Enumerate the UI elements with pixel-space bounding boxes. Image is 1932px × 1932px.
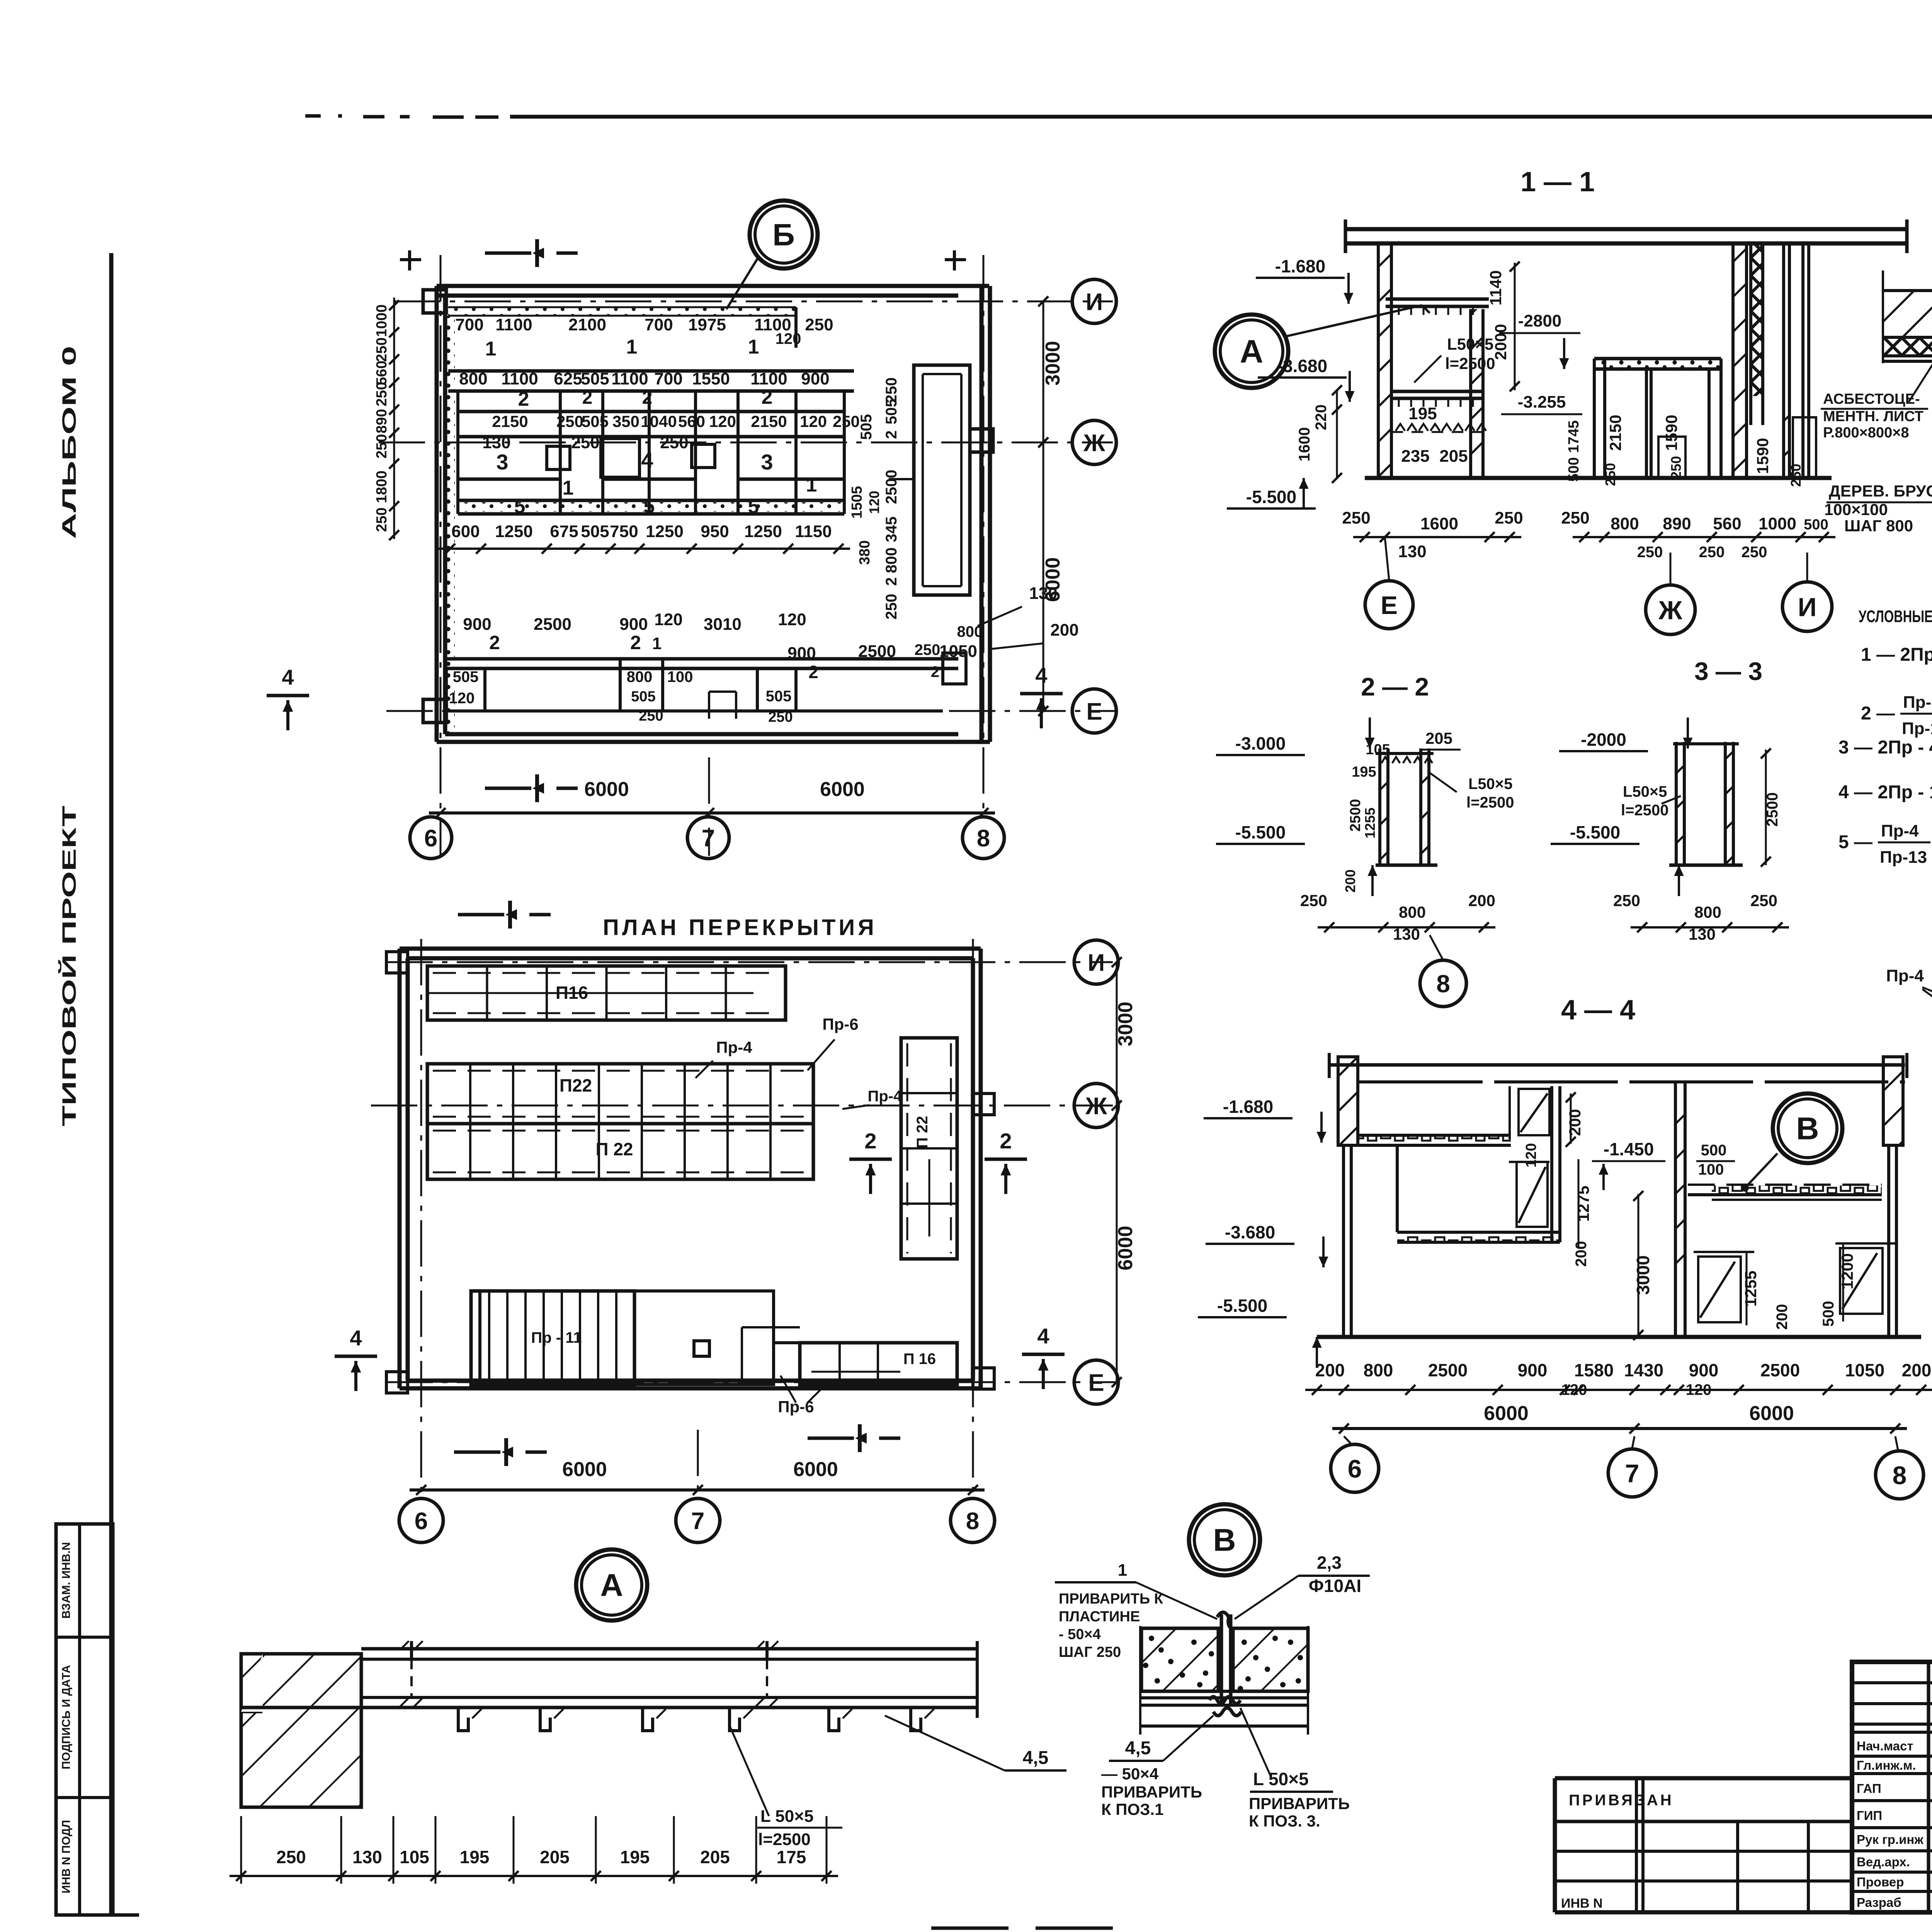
svg-text:-3.000: -3.000: [1235, 733, 1286, 753]
svg-text:250: 250: [1788, 464, 1804, 487]
svg-text:250: 250: [374, 382, 390, 406]
svg-text:2100: 2100: [568, 315, 606, 334]
svg-text:Пр-4: Пр-4: [1881, 821, 1919, 840]
svg-text:1580: 1580: [1574, 1360, 1614, 1380]
svg-text:205: 205: [1439, 447, 1468, 466]
bottom edge dashes: [23, 1928, 1839, 1932]
svg-text:2: 2: [518, 388, 529, 410]
svg-text:- 50×4: - 50×4: [1059, 1626, 1101, 1643]
svg-text:АСБЕСТОЦЕ-: АСБЕСТОЦЕ-: [1823, 391, 1920, 407]
svg-text:130: 130: [482, 433, 510, 452]
svg-text:675: 675: [550, 522, 578, 541]
svg-text:195: 195: [620, 1847, 650, 1867]
svg-text:6000: 6000: [562, 1458, 607, 1481]
svg-text:700: 700: [645, 315, 673, 334]
svg-text:П 22: П 22: [595, 1139, 633, 1159]
svg-text:4 — 4: 4 — 4: [1561, 995, 1635, 1026]
svg-text:— 50×4: — 50×4: [1101, 1765, 1159, 1783]
svg-text:900: 900: [1518, 1360, 1548, 1380]
svg-text:250: 250: [374, 507, 390, 532]
section 4-4 right chamber shelf: [1688, 1185, 1882, 1200]
svg-text:500: 500: [1701, 1142, 1727, 1159]
svg-text:l=2500: l=2500: [1445, 354, 1495, 372]
svg-text:1975: 1975: [688, 315, 726, 334]
svg-text:1040: 1040: [641, 412, 677, 430]
svg-text:П 22: П 22: [914, 1116, 931, 1148]
svg-text:Б: Б: [772, 218, 795, 252]
section 4-4 middle wall: [1675, 1083, 1685, 1337]
svg-text:Е: Е: [1086, 698, 1102, 725]
svg-text:Ф10АI: Ф10АI: [1309, 1576, 1361, 1596]
svg-text:К ПОЗ.1: К ПОЗ.1: [1101, 1800, 1164, 1818]
svg-text:200: 200: [1315, 1360, 1345, 1380]
svg-text:Ж: Ж: [1658, 595, 1682, 625]
svg-text:Пр-13: Пр-13: [1880, 848, 1927, 867]
svg-text:4,5: 4,5: [1125, 1738, 1151, 1759]
svg-text:2500: 2500: [1347, 799, 1364, 832]
svg-text:L50×5: L50×5: [1468, 776, 1513, 793]
svg-text:-5.500: -5.500: [1246, 487, 1296, 507]
svg-text:2500: 2500: [883, 470, 900, 504]
floor plan bottom dims: [410, 1458, 985, 1495]
panel strip Пр-11 bottom left: [471, 1291, 634, 1384]
svg-text:1100: 1100: [495, 315, 532, 334]
svg-text:ПЛАН ПЕРЕКРЫТИЯ: ПЛАН ПЕРЕКРЫТИЯ: [603, 915, 877, 940]
plan room labels 5: [514, 495, 759, 518]
section 1-1 bottom dims: [1342, 509, 1835, 561]
svg-text:1600: 1600: [1420, 514, 1458, 533]
svg-text:130: 130: [1398, 542, 1426, 561]
svg-text:2500: 2500: [534, 615, 571, 634]
svg-text:Пр-12: Пр-12: [1902, 719, 1932, 738]
svg-text:В: В: [1796, 1111, 1819, 1146]
svg-text:МЕНТН. ЛИСТ: МЕНТН. ЛИСТ: [1823, 408, 1923, 425]
svg-text:-1.680: -1.680: [1223, 1097, 1273, 1117]
svg-text:205: 205: [700, 1847, 730, 1867]
svg-text:505: 505: [766, 688, 792, 705]
svg-text:200: 200: [1774, 1304, 1791, 1330]
svg-text:1 — 2Пр - 7: 1 — 2Пр - 7: [1861, 645, 1932, 665]
svg-text:Е: Е: [1088, 1369, 1104, 1396]
svg-text:175: 175: [777, 1847, 806, 1867]
svg-text:П22: П22: [560, 1075, 592, 1095]
svg-text:120: 120: [449, 690, 475, 707]
svg-text:4: 4: [1035, 663, 1047, 687]
svg-text:l=2500: l=2500: [758, 1830, 811, 1849]
detail A dims: [230, 1816, 838, 1884]
section 2-2 drawing: [1216, 718, 1514, 943]
svg-text:3000: 3000: [1114, 1002, 1137, 1046]
svg-text:200: 200: [1573, 1241, 1590, 1267]
detail A beam: [241, 1641, 977, 1731]
svg-text:1100: 1100: [750, 369, 787, 388]
svg-text:250: 250: [1613, 891, 1640, 910]
svg-text:l=2500: l=2500: [1621, 802, 1668, 819]
svg-text:2000: 2000: [1492, 324, 1510, 360]
svg-text:3000: 3000: [1042, 341, 1064, 386]
svg-text:500: 500: [1820, 1301, 1837, 1327]
svg-text:3010: 3010: [704, 615, 742, 634]
plan left rotated dim stack: [374, 298, 399, 540]
svg-text:2: 2: [883, 430, 900, 439]
svg-text:505: 505: [631, 689, 655, 705]
svg-text:120: 120: [776, 330, 801, 347]
svg-text:220: 220: [1313, 405, 1330, 430]
floor plan section marks 4: [335, 1324, 1065, 1391]
svg-text:L 50×5: L 50×5: [1253, 1769, 1309, 1789]
svg-text:250: 250: [1342, 509, 1370, 527]
floor plan labels: [696, 1015, 902, 1416]
floor plan grid circles: [1074, 940, 1118, 1404]
svg-text:1: 1: [563, 477, 574, 499]
svg-text:250: 250: [1561, 509, 1589, 527]
svg-text:И: И: [1798, 592, 1817, 622]
svg-text:505: 505: [581, 522, 609, 541]
svg-text:4 — 2Пр - 12: 4 — 2Пр - 12: [1838, 782, 1932, 803]
svg-text:Пр-4: Пр-4: [716, 1038, 752, 1056]
svg-text:600: 600: [451, 522, 480, 541]
svg-text:ГИП: ГИП: [1857, 1808, 1882, 1823]
svg-text:800: 800: [1364, 1360, 1393, 1380]
svg-text:625: 625: [554, 369, 582, 388]
legend title: [1859, 607, 1932, 626]
title block text: [1857, 1674, 1932, 1910]
svg-text:ТИПОВОЙ ПРОЕКТ: ТИПОВОЙ ПРОЕКТ: [58, 806, 80, 1126]
lower right framing: [742, 1327, 800, 1384]
plan cut marks: [267, 239, 1063, 802]
svg-text:560: 560: [374, 361, 390, 385]
svg-text:1505: 1505: [849, 486, 865, 519]
svg-text:250: 250: [1637, 544, 1663, 561]
panel strip П22 row1: [427, 1064, 813, 1124]
svg-text:250: 250: [571, 433, 599, 452]
plan lower walls: [446, 653, 966, 719]
svg-text:УСЛОВНЫЕ ОБОЗНАЧЕНИЯ: УСЛОВНЫЕ ОБОЗНАЧЕНИЯ: [1859, 607, 1932, 626]
panel strip П16 top: [427, 966, 786, 1020]
svg-text:700: 700: [455, 315, 483, 334]
svg-text:120: 120: [800, 412, 827, 430]
svg-text:l=2500: l=2500: [1466, 794, 1514, 811]
svg-text:1: 1: [485, 338, 497, 360]
svg-text:1745: 1745: [1566, 420, 1582, 453]
section 1-1 middle panels: [1594, 359, 1721, 478]
section 4-4 title: [1561, 995, 1635, 1026]
svg-text:ДЕРЕВ. БРУС: ДЕРЕВ. БРУС: [1829, 482, 1932, 500]
svg-text:560: 560: [1713, 514, 1741, 533]
floor plan walls: [386, 949, 994, 1393]
svg-text:100×100: 100×100: [1824, 500, 1888, 519]
svg-text:250: 250: [1495, 509, 1523, 527]
svg-text:195: 195: [1408, 404, 1437, 423]
detail A labels: [730, 1716, 1066, 1849]
svg-text:890: 890: [374, 409, 390, 433]
svg-text:Рук гр.инж: Рук гр.инж: [1857, 1832, 1923, 1847]
svg-text:1050: 1050: [1845, 1360, 1884, 1380]
section 4-4 right wall: [1883, 1057, 1903, 1337]
svg-text:1250: 1250: [495, 522, 533, 541]
svg-text:5: 5: [748, 495, 759, 518]
svg-text:2: 2: [808, 662, 818, 682]
svg-text:250: 250: [639, 708, 663, 724]
svg-text:6000: 6000: [1749, 1402, 1794, 1425]
svg-text:380: 380: [857, 540, 873, 565]
section 1-1 inner dims: [1401, 262, 1804, 487]
svg-text:4,5: 4,5: [1023, 1748, 1049, 1768]
svg-text:ПРИВЯЗАН: ПРИВЯЗАН: [1569, 1792, 1674, 1809]
svg-text:1050: 1050: [939, 642, 977, 661]
svg-text:6000: 6000: [1114, 1226, 1137, 1270]
svg-text:4: 4: [641, 448, 653, 472]
bottom middle opening: [480, 1291, 774, 1384]
section 2-2 title: [1361, 672, 1429, 701]
svg-text:1: 1: [626, 336, 638, 358]
svg-text:1000: 1000: [1759, 514, 1796, 533]
detail B labels: [1101, 1553, 1370, 1830]
panel strip П22 row2: [427, 1124, 813, 1179]
svg-text:Пр - 11: Пр - 11: [531, 1329, 582, 1346]
svg-text:1150: 1150: [795, 522, 832, 541]
floor plan title: [603, 915, 877, 940]
svg-text:Провер: Провер: [1857, 1875, 1904, 1889]
svg-text:ШАГ 250: ШАГ 250: [1059, 1644, 1121, 1660]
svg-text:1100: 1100: [501, 369, 538, 388]
album label: [58, 346, 80, 539]
detail B leader to plate label: [1055, 1561, 1217, 1660]
section 1-1 left wall: [1378, 243, 1391, 478]
svg-text:Пр-6: Пр-6: [822, 1015, 858, 1033]
section 3-3 drawing: [1551, 718, 1789, 943]
svg-text:1: 1: [748, 336, 759, 358]
svg-text:200: 200: [1902, 1360, 1932, 1380]
floor plan grid: [371, 939, 1117, 1495]
detail circle В in 4-4: [1741, 1094, 1842, 1192]
detail A circle: [576, 1549, 647, 1621]
svg-text:2: 2: [582, 388, 593, 408]
plan left wall dotted band: [446, 316, 455, 734]
svg-text:800: 800: [627, 668, 653, 685]
plan dimension text row 2: [459, 369, 829, 388]
svg-text:1: 1: [652, 634, 662, 653]
svg-text:6000: 6000: [1042, 557, 1064, 602]
floor plan section marks 2: [849, 1129, 1027, 1194]
svg-text:L50×5: L50×5: [1447, 335, 1493, 353]
svg-text:1800: 1800: [374, 471, 390, 503]
detail И-И drawing: [1886, 915, 1932, 1104]
plan right room: [889, 365, 970, 595]
svg-text:105: 105: [400, 1847, 429, 1867]
svg-text:-3.680: -3.680: [1225, 1222, 1275, 1242]
svg-text:1100: 1100: [611, 369, 648, 388]
section 1-1 grid circles: [1365, 537, 1832, 634]
svg-text:2: 2: [931, 663, 939, 680]
section 4-4 grid circles: [1331, 1436, 1923, 1499]
plan right rotated dims 3000/6000: [1038, 296, 1064, 716]
svg-text:1 — 1: 1 — 1: [1520, 167, 1595, 197]
section 4-4 inner dims: [1523, 1092, 1856, 1340]
svg-text:120: 120: [709, 412, 736, 430]
svg-text:-5.500: -5.500: [1235, 822, 1286, 842]
svg-text:505: 505: [453, 668, 479, 685]
sheet top border: [305, 116, 1932, 117]
svg-text:ПОДПИСЬ И ДАТА: ПОДПИСЬ И ДАТА: [60, 1665, 73, 1769]
svg-text:2 — 2: 2 — 2: [1361, 672, 1429, 701]
section 3-3 title: [1694, 657, 1762, 685]
svg-text:1550: 1550: [692, 369, 730, 388]
svg-text:Пр-4: Пр-4: [1886, 966, 1924, 985]
svg-text:500: 500: [1804, 517, 1828, 533]
detail B drawing: [1140, 1612, 1308, 1735]
section 4-4 lower angle brackets: [1694, 1243, 1895, 1322]
svg-text:250: 250: [1699, 544, 1725, 561]
svg-text:И: И: [1088, 949, 1105, 976]
svg-text:800: 800: [883, 548, 900, 573]
right vertical panel П22: [901, 1038, 957, 1259]
plan room labels 3: [496, 448, 817, 499]
svg-text:505: 505: [581, 369, 609, 388]
plan walls: [423, 286, 993, 742]
plan leader to Б: [726, 201, 818, 309]
svg-text:В: В: [1213, 1523, 1236, 1558]
svg-text:2: 2: [630, 632, 641, 653]
plan lower dims: [449, 584, 1079, 725]
svg-text:900: 900: [1689, 1360, 1719, 1380]
svg-text:250: 250: [833, 412, 860, 430]
svg-text:4: 4: [282, 665, 294, 689]
svg-text:6: 6: [1348, 1454, 1362, 1483]
svg-text:2: 2: [489, 632, 500, 653]
svg-text:3 — 2Пр - 40: 3 — 2Пр - 40: [1838, 737, 1932, 758]
svg-text:ИНВ N: ИНВ N: [1561, 1896, 1603, 1911]
section 1-1 title: [1520, 167, 1595, 197]
svg-text:ПРИВАРИТЬ: ПРИВАРИТЬ: [1249, 1794, 1350, 1813]
svg-text:250: 250: [374, 434, 390, 458]
svg-text:900: 900: [619, 615, 648, 634]
svg-text:200: 200: [1468, 891, 1495, 910]
svg-text:2150: 2150: [1606, 415, 1624, 451]
left frame border: [109, 253, 114, 1915]
svg-text:7: 7: [1625, 1459, 1639, 1488]
section 4-4 bottom dims: [1305, 1360, 1932, 1434]
svg-text:250: 250: [883, 594, 900, 620]
svg-text:2500: 2500: [858, 642, 896, 661]
plan room labels 2: [518, 386, 773, 410]
svg-text:ПРИВАРИТЬ: ПРИВАРИТЬ: [1101, 1783, 1202, 1801]
svg-text:К ПОЗ. 3.: К ПОЗ. 3.: [1249, 1812, 1320, 1830]
small box on grid 7: [694, 1341, 709, 1356]
svg-text:200: 200: [1342, 869, 1358, 893]
svg-text:1430: 1430: [1624, 1360, 1663, 1380]
section 1-1 ground line: [1365, 476, 1832, 480]
svg-text:1200: 1200: [1838, 1253, 1856, 1289]
plan right room rotated dims: [849, 378, 900, 620]
svg-text:560: 560: [678, 412, 705, 430]
svg-text:1250: 1250: [646, 522, 684, 541]
svg-text:6000: 6000: [820, 778, 865, 801]
plan dimension text row 3: [482, 412, 860, 452]
svg-text:1590: 1590: [1753, 438, 1772, 474]
svg-text:1275: 1275: [1574, 1185, 1592, 1221]
svg-text:1600: 1600: [1296, 427, 1313, 462]
section 4-4 ground: [1317, 1335, 1921, 1339]
privyazan table: [1555, 1778, 1852, 1912]
svg-text:L50×5: L50×5: [1623, 783, 1667, 800]
svg-text:505: 505: [582, 412, 609, 430]
floor plan rotated dims: [1112, 957, 1137, 1387]
svg-text:6: 6: [424, 825, 437, 852]
left stamp mini table: [56, 1524, 139, 1915]
plan top room hatched band: [448, 307, 796, 348]
section 1-1 chamber: [1386, 299, 1489, 478]
svg-text:Гл.инж.м.: Гл.инж.м.: [1857, 1758, 1916, 1772]
svg-text:АЛЬБОМ 0: АЛЬБОМ 0: [58, 346, 80, 539]
svg-text:505: 505: [858, 414, 875, 440]
svg-text:ПЛАСТИНЕ: ПЛАСТИНЕ: [1059, 1609, 1140, 1625]
svg-text:И: И: [1086, 289, 1103, 315]
svg-text:2: 2: [642, 388, 653, 408]
circle 8 under 2-2: [1420, 935, 1466, 1007]
svg-text:235: 235: [1401, 447, 1429, 466]
svg-text:6000: 6000: [793, 1458, 838, 1481]
svg-text:Вед.арх.: Вед.арх.: [1857, 1855, 1910, 1869]
svg-text:750: 750: [610, 522, 638, 541]
section 1-1 level marks: [1227, 256, 1355, 509]
plan grid circles: [1072, 279, 1116, 733]
svg-text:6: 6: [415, 1508, 428, 1534]
svg-text:800: 800: [459, 369, 487, 388]
plan bottom dimension 6000+6000: [429, 778, 995, 818]
svg-text:П 16: П 16: [903, 1350, 936, 1367]
svg-text:8: 8: [966, 1508, 979, 1534]
title block frame: [1852, 1662, 1932, 1912]
svg-text:Разраб: Разраб: [1857, 1895, 1901, 1910]
svg-text:250: 250: [374, 337, 390, 362]
svg-text:3: 3: [761, 450, 773, 474]
detail Б drawing: [1883, 247, 1932, 363]
svg-text:Нач.маст: Нач.маст: [1857, 1739, 1913, 1753]
svg-text:1255: 1255: [1742, 1270, 1760, 1306]
floor plan cut marks: [454, 901, 900, 1466]
svg-text:505: 505: [883, 399, 900, 425]
svg-text:2: 2: [883, 577, 900, 586]
svg-text:1140: 1140: [1486, 270, 1505, 305]
svg-text:Ж: Ж: [1083, 430, 1105, 456]
svg-text:890: 890: [1663, 514, 1691, 533]
svg-text:ШАГ 800: ШАГ 800: [1844, 517, 1913, 535]
svg-text:500: 500: [1566, 457, 1582, 481]
plan room labels 1: [485, 336, 759, 360]
svg-text:900: 900: [787, 644, 816, 663]
svg-text:250: 250: [1742, 544, 1767, 561]
detail A support block: [241, 1654, 361, 1807]
svg-text:800: 800: [1694, 903, 1721, 921]
svg-text:250: 250: [1668, 456, 1684, 479]
svg-text:6000: 6000: [584, 778, 629, 801]
detail Б labels: [1821, 229, 1932, 535]
svg-text:120: 120: [866, 491, 882, 514]
plan corner ticks: [400, 250, 966, 270]
svg-text:8: 8: [977, 825, 990, 852]
svg-text:1590: 1590: [1662, 415, 1680, 451]
section 1-1 right walls: [1733, 243, 1816, 478]
svg-text:2,3: 2,3: [1317, 1553, 1342, 1573]
svg-text:900: 900: [801, 369, 829, 388]
svg-text:-3.255: -3.255: [1518, 393, 1566, 412]
svg-text:3000: 3000: [1633, 1255, 1653, 1295]
svg-text:Р.800×800×8: Р.800×800×8: [1823, 425, 1909, 441]
svg-text:100: 100: [1698, 1161, 1724, 1178]
svg-text:120: 120: [778, 610, 806, 629]
plan of chambers: grid lines: [379, 255, 1117, 856]
